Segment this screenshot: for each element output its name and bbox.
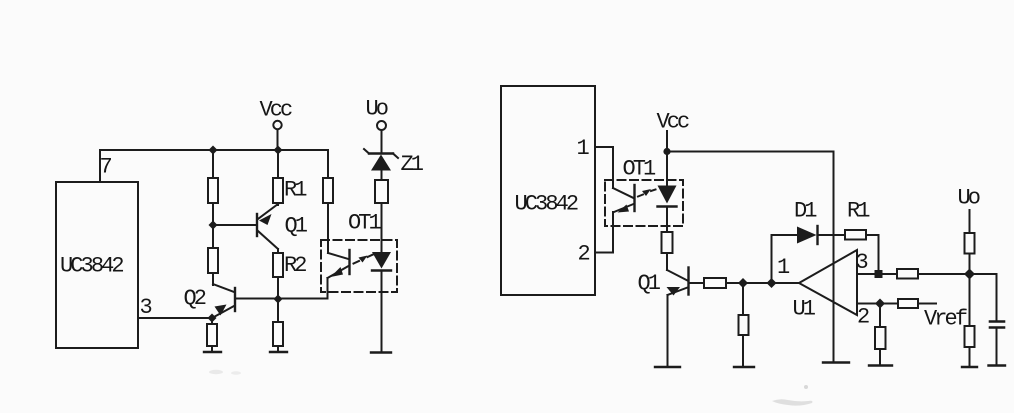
wire Q1-R emitter to ground	[667, 295, 669, 367]
svg-text:Vref: Vref	[924, 307, 967, 332]
wire to ground x880	[879, 349, 881, 365]
opto OT1-L light arrow	[354, 255, 374, 264]
resistor pin2 (horizontal)	[898, 299, 918, 308]
svg-text:R1: R1	[284, 178, 307, 203]
ground x880	[869, 364, 892, 366]
wire Q1 collector to R2	[277, 249, 279, 253]
wire Vcc-R down	[666, 131, 668, 185]
wire LED to ground	[381, 271, 383, 353]
node junction rail-x278	[274, 146, 283, 155]
wire below junction x278	[277, 299, 279, 322]
wire Uo-R down from label	[969, 210, 971, 233]
node square junction pin3	[875, 270, 883, 278]
resistor x328 (unlabeled)	[323, 178, 333, 203]
resistor R2	[273, 253, 283, 277]
node junction x771	[767, 278, 777, 288]
svg-text:Q1: Q1	[638, 271, 661, 296]
svg-text:R2: R2	[284, 253, 306, 278]
wire D1 to R1	[818, 234, 846, 236]
transistor Q1-R (PNP)	[667, 268, 689, 296]
wire resistor to LED	[381, 203, 383, 252]
node junction x213 base node	[209, 221, 218, 230]
node junction Uo-R	[964, 269, 975, 280]
wire node down	[969, 274, 971, 326]
wire OT1 emitter down	[327, 278, 329, 299]
wire branch x278 upper	[277, 150, 279, 178]
wire opamp power vertical	[833, 152, 835, 363]
wire LED to resistor	[666, 207, 668, 233]
svg-text:2: 2	[578, 242, 590, 267]
svg-text:D1: D1	[794, 199, 817, 224]
op-amp U1	[799, 250, 857, 315]
diode D1	[797, 226, 818, 244]
wire cap branch down	[996, 274, 998, 321]
resistor divider upper (unlabeled)	[208, 178, 218, 203]
svg-text:Q2: Q2	[184, 286, 206, 311]
wire branch x213 upper	[212, 150, 214, 178]
ground Q1-R	[655, 366, 680, 368]
wire Q1 base	[213, 224, 256, 226]
wire R1 down to pin3	[878, 235, 880, 270]
node junction Vcc-R	[663, 148, 670, 155]
node junction x278 y299	[274, 295, 283, 304]
wire R2 down	[277, 277, 279, 299]
svg-text:3: 3	[856, 250, 868, 275]
svg-text:7: 7	[100, 155, 112, 180]
resistor below Z1	[375, 180, 388, 203]
wire Vcc to rail	[277, 130, 279, 151]
resistor below OT1-R	[662, 232, 673, 253]
wire resistor to Q1 collector	[666, 253, 668, 270]
IC U-left UC3842 box	[56, 182, 138, 348]
ground x743	[734, 366, 754, 368]
wire between resistors x213	[212, 203, 214, 248]
wire resistor to Q2 collector	[212, 273, 214, 285]
ground opamp	[823, 361, 849, 363]
resistor below x278	[273, 322, 283, 346]
opto OT1-R dashed box	[605, 180, 683, 226]
svg-text:2: 2	[857, 305, 869, 330]
opto OT1-R light arrow	[638, 189, 656, 197]
resistor Uo-R lower	[965, 326, 975, 347]
opto OT1-R LED diode	[658, 186, 677, 207]
svg-text:3: 3	[140, 295, 152, 320]
wire R1 to Q1 emitter	[277, 203, 279, 205]
resistor Uo-R upper	[965, 233, 975, 254]
svg-text:R1: R1	[847, 199, 870, 224]
resistor divider lower (unlabeled)	[208, 248, 218, 273]
ground x969	[962, 366, 977, 368]
opto OT1-L LED diode	[372, 252, 391, 271]
wire pin3 stub	[138, 317, 212, 319]
wire pin1 down to OT1	[612, 147, 614, 188]
transistor Q2 (PNP)	[212, 284, 235, 318]
svg-text:Q1: Q1	[285, 214, 308, 239]
svg-text:UC3842: UC3842	[515, 192, 578, 217]
svg-text:U1: U1	[793, 297, 816, 322]
ground cap	[989, 364, 1006, 366]
zener Z1	[364, 149, 398, 171]
wire Vref	[918, 303, 936, 305]
opto OT1-L dashed box	[321, 240, 397, 292]
wire Q2 emitter down	[211, 318, 213, 324]
opto OT1-R phototransistor	[613, 185, 635, 213]
wire pin7 stub	[99, 150, 101, 182]
resistor R1-R (horizontal)	[845, 230, 866, 240]
wire cap to ground	[996, 328, 998, 366]
resistor divider x743	[739, 315, 749, 335]
wire zener to resistor	[381, 171, 383, 181]
wire R1 right	[866, 234, 879, 236]
node junction Q2 emitter	[208, 314, 217, 323]
wire Q1-R base	[689, 282, 704, 284]
terminal Uo circle (left)	[377, 121, 386, 130]
svg-text:Uo: Uo	[366, 97, 388, 122]
terminal Vcc circle	[273, 121, 281, 129]
wire feedback to D1	[772, 234, 798, 236]
wire top rail	[100, 149, 328, 151]
wire divider down x743	[742, 283, 744, 315]
ground x381	[371, 351, 391, 353]
wire branch x328 upper	[327, 150, 329, 178]
wire base resistor to opamp	[726, 282, 799, 284]
wire resistor to OT1 collector	[327, 203, 329, 253]
svg-text:UC3842: UC3842	[60, 254, 123, 279]
svg-text:Vcc: Vcc	[260, 98, 293, 123]
ground x278	[270, 351, 287, 353]
wire pin3 out	[857, 273, 897, 275]
wire feedback up x771	[771, 235, 773, 283]
wire to ground x969	[969, 347, 971, 367]
wire pin2 divider down	[879, 304, 881, 328]
node junction x743	[738, 278, 748, 288]
wire OT1-R emitter down to pin2	[612, 212, 614, 253]
capacitor C	[990, 322, 1004, 328]
svg-text:OT1: OT1	[623, 157, 657, 182]
IC U-right UC3842 box	[501, 86, 595, 295]
resistor base (horizontal)	[704, 278, 726, 288]
resistor pin2 divider	[875, 327, 886, 349]
wire resistor to node	[969, 254, 971, 275]
svg-text:OT1: OT1	[348, 211, 382, 236]
resistor pin3 (horizontal)	[897, 269, 918, 279]
wire pin2 stub	[595, 252, 613, 254]
svg-text:Uo: Uo	[958, 186, 980, 211]
resistor below Q2	[207, 324, 217, 346]
opto OT1-L phototransistor	[328, 250, 350, 278]
svg-text:Z1: Z1	[401, 152, 424, 177]
wire to ground x212	[211, 346, 213, 352]
wire pin2 out	[857, 303, 898, 305]
wire pin3 to Uo node	[918, 273, 997, 275]
wire Uo to zener	[381, 130, 383, 154]
wire pin1 stub	[595, 146, 613, 148]
wire Q2 base / to optocoupler emitter	[236, 298, 328, 300]
node junction rail-x213	[209, 146, 218, 155]
scan smudges (faint)	[209, 370, 813, 406]
wire to ground x278	[277, 346, 279, 352]
wire top rail right	[667, 151, 834, 153]
svg-text:Vcc: Vcc	[657, 110, 690, 135]
node junction pin2	[875, 299, 885, 309]
ground x212	[204, 351, 221, 353]
transistor Q1 (PNP)	[257, 204, 278, 249]
resistor R1	[273, 178, 283, 203]
wire divider to ground	[742, 335, 744, 367]
